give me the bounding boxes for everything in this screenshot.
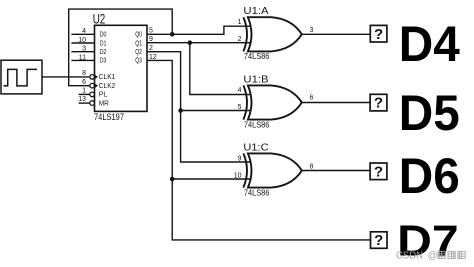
svg-text:9: 9	[149, 36, 153, 43]
xor gate U1:B	[243, 85, 301, 119]
node junction Q0	[170, 32, 175, 37]
svg-text:?: ?	[374, 232, 383, 249]
inversion bubble CLK1	[90, 75, 95, 80]
terminal box D4	[370, 25, 387, 42]
svg-text:1: 1	[82, 87, 86, 94]
xor gate U1:C	[243, 153, 301, 187]
svg-text:D1: D1	[100, 40, 107, 47]
watermark CSDN	[396, 251, 438, 262]
inversion bubble PL	[90, 92, 95, 97]
watermark CJK glyph 3	[458, 251, 465, 258]
wire clock output to CLK1	[42, 76, 90, 78]
wire net Q0 feedback loop to CLK2	[69, 9, 173, 86]
wire U1:B output to D5 terminal	[302, 102, 370, 104]
svg-text:12: 12	[149, 54, 157, 61]
watermark CJK glyph 2	[448, 251, 455, 258]
wire net Q1 branch to U1:B pin4	[190, 43, 251, 95]
svg-text:74LS86: 74LS86	[244, 52, 270, 61]
clock edge triangle CLK1	[95, 75, 99, 80]
svg-text:5: 5	[238, 104, 242, 111]
svg-text:13: 13	[78, 96, 86, 103]
pin stub D2	[71, 51, 94, 53]
svg-text:1: 1	[238, 19, 242, 26]
wire net Q2 to U1:C pin9	[147, 52, 251, 162]
svg-text:?: ?	[374, 95, 383, 112]
wire U1:A output to D4 terminal	[302, 33, 370, 35]
svg-text:D5: D5	[399, 85, 460, 141]
svg-text:6: 6	[82, 79, 86, 86]
svg-text:9: 9	[238, 156, 242, 163]
terminal box D5	[370, 94, 387, 111]
node junction Q2	[178, 108, 183, 113]
svg-text:3: 3	[310, 27, 314, 34]
svg-text:Q0: Q0	[135, 32, 142, 39]
counter U2 body	[95, 25, 148, 111]
svg-text:10: 10	[78, 37, 86, 44]
svg-text:74LS86: 74LS86	[244, 120, 270, 129]
clock edge triangle CLK2	[95, 83, 99, 88]
node junction Q3	[170, 177, 175, 182]
svg-text:PL: PL	[99, 92, 108, 99]
svg-text:?: ?	[374, 26, 383, 43]
svg-text:8: 8	[82, 70, 86, 77]
clock source generator	[1, 60, 42, 94]
svg-text:8: 8	[310, 163, 314, 170]
node junction Q1	[188, 40, 193, 45]
svg-text:MR: MR	[99, 100, 109, 107]
terminal box D6	[370, 163, 387, 180]
svg-text:10: 10	[234, 173, 242, 180]
svg-text:D6: D6	[399, 148, 460, 204]
svg-text:D0: D0	[100, 32, 107, 39]
wire U1:C output to D6 terminal	[302, 170, 370, 172]
svg-text:CLK2: CLK2	[99, 83, 116, 90]
svg-text:Q2: Q2	[135, 49, 142, 56]
svg-text:4: 4	[82, 28, 86, 35]
svg-text:5: 5	[149, 27, 153, 34]
wire net Q1 to U1:A pin2	[147, 42, 251, 44]
svg-text:6: 6	[310, 95, 314, 102]
svg-text:?: ?	[374, 163, 383, 180]
svg-text:U1:B: U1:B	[243, 74, 268, 85]
svg-text:U1:A: U1:A	[243, 6, 268, 17]
svg-text:4: 4	[238, 87, 242, 94]
wire net Q2 branch to U1:B pin5	[181, 110, 251, 112]
svg-text:@: @	[428, 251, 438, 262]
svg-text:2: 2	[238, 36, 242, 43]
svg-text:2: 2	[149, 45, 153, 52]
pin stub D1	[71, 42, 94, 44]
svg-text:D3: D3	[100, 58, 107, 65]
svg-text:Q3: Q3	[135, 58, 142, 65]
svg-text:74LS197: 74LS197	[94, 112, 124, 122]
inversion bubble CLK2	[90, 83, 95, 88]
wire net Q3 to D7 terminal	[147, 60, 370, 240]
pin stub PL	[79, 93, 90, 95]
terminal box D7	[371, 232, 388, 249]
svg-text:CLK1: CLK1	[99, 74, 116, 81]
svg-text:74LS86: 74LS86	[244, 188, 270, 197]
svg-text:CSDN: CSDN	[396, 251, 423, 262]
svg-text:3: 3	[82, 46, 86, 53]
svg-text:Q1: Q1	[135, 40, 142, 47]
wire net Q0 to U1:A pin1	[147, 26, 251, 34]
watermark CJK glyph 1	[438, 251, 445, 258]
pin stub D3	[71, 59, 94, 61]
xor gate U1:A	[243, 17, 301, 51]
pin stub MR	[79, 102, 90, 104]
svg-text:U1:C: U1:C	[243, 143, 269, 154]
pin stub D0	[71, 33, 94, 35]
svg-text:U2: U2	[93, 12, 106, 27]
inversion bubble MR	[90, 101, 95, 106]
svg-text:D4: D4	[399, 16, 460, 72]
svg-text:D2: D2	[100, 49, 107, 56]
svg-text:11: 11	[79, 54, 86, 61]
wire net Q3 branch to U1:C pin10	[172, 178, 251, 180]
